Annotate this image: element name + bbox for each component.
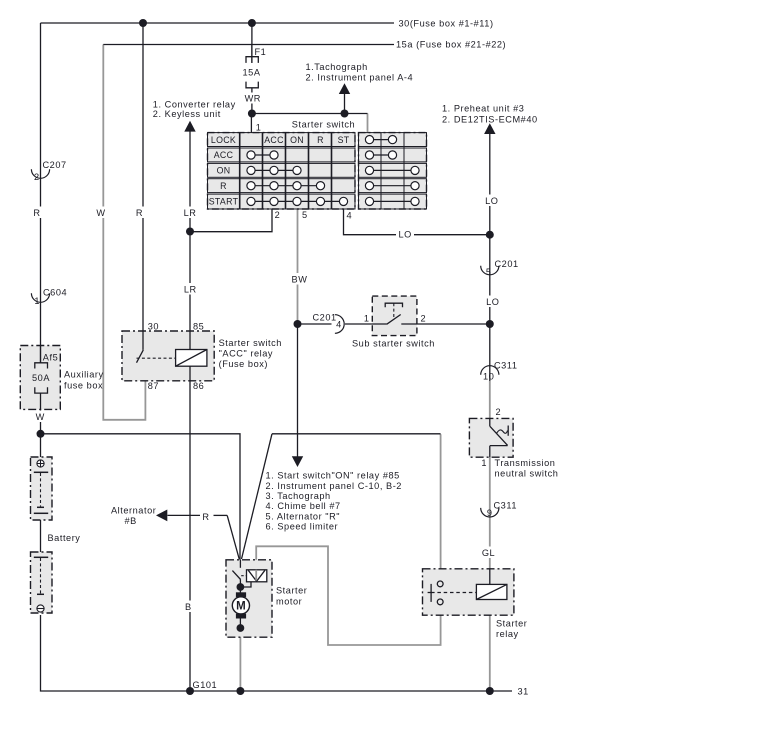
svg-text:LR: LR <box>184 208 197 218</box>
svg-text:ACC: ACC <box>214 150 234 160</box>
svg-text:85: 85 <box>193 322 204 332</box>
svg-text:W: W <box>96 208 105 218</box>
svg-text:5. Alternator "R": 5. Alternator "R" <box>266 511 341 521</box>
svg-text:4. Chime bell #7: 4. Chime bell #7 <box>266 501 341 511</box>
svg-text:30(Fuse box #1-#11): 30(Fuse box #1-#11) <box>399 18 494 28</box>
svg-text:2. Keyless unit: 2. Keyless unit <box>153 109 221 119</box>
svg-text:1. Preheat unit #3: 1. Preheat unit #3 <box>442 103 524 113</box>
svg-text:LR: LR <box>184 285 197 295</box>
svg-text:4: 4 <box>347 211 353 221</box>
svg-text:LO: LO <box>486 297 499 307</box>
svg-text:Battery: Battery <box>48 533 81 543</box>
svg-text:1: 1 <box>364 314 370 324</box>
svg-text:4: 4 <box>336 319 342 329</box>
svg-text:1. Start switch"ON" relay #85: 1. Start switch"ON" relay #85 <box>266 471 400 481</box>
svg-text:50A: 50A <box>32 373 50 383</box>
svg-text:R: R <box>202 512 209 522</box>
svg-text:2: 2 <box>421 314 427 324</box>
svg-text:relay: relay <box>496 629 519 639</box>
svg-text:ACC: ACC <box>264 135 284 145</box>
svg-text:6. Speed limiter: 6. Speed limiter <box>266 522 339 532</box>
svg-text:R: R <box>317 135 324 145</box>
svg-text:2. DE12TIS-ECM#40: 2. DE12TIS-ECM#40 <box>442 114 538 124</box>
svg-text:B: B <box>185 602 192 612</box>
svg-text:1: 1 <box>481 458 487 468</box>
svg-text:ST: ST <box>338 135 350 145</box>
svg-text:86: 86 <box>193 381 204 391</box>
svg-text:Starter: Starter <box>496 619 527 629</box>
svg-text:Alternator: Alternator <box>111 506 156 516</box>
svg-text:LO: LO <box>399 230 412 240</box>
svg-text:Sub starter switch: Sub starter switch <box>352 339 435 349</box>
svg-text:START: START <box>209 197 239 207</box>
svg-text:WR: WR <box>245 94 261 104</box>
svg-text:fuse box: fuse box <box>64 381 103 391</box>
svg-text:Auxiliary: Auxiliary <box>64 370 104 380</box>
svg-text:2. Instrument panel C-10, B-2: 2. Instrument panel C-10, B-2 <box>266 481 402 491</box>
svg-text:30: 30 <box>148 322 159 332</box>
svg-text:motor: motor <box>276 597 302 607</box>
svg-text:1: 1 <box>256 123 262 133</box>
svg-text:R: R <box>220 181 227 191</box>
svg-text:Starter: Starter <box>276 586 307 596</box>
svg-text:Af5: Af5 <box>43 353 58 363</box>
svg-text:10: 10 <box>483 372 494 382</box>
svg-text:31: 31 <box>518 687 529 697</box>
svg-text:9: 9 <box>487 508 493 518</box>
svg-text:1: 1 <box>34 296 40 306</box>
svg-text:5: 5 <box>486 267 492 277</box>
svg-text:M: M <box>236 601 246 613</box>
svg-text:2. Instrument panel A-4: 2. Instrument panel A-4 <box>306 72 414 82</box>
svg-text:Transmission: Transmission <box>495 458 556 468</box>
svg-text:2: 2 <box>34 172 40 182</box>
svg-text:15a (Fuse box #21-#22): 15a (Fuse box #21-#22) <box>396 40 506 50</box>
svg-text:R: R <box>136 208 143 218</box>
svg-text:(Fuse box): (Fuse box) <box>219 359 268 369</box>
svg-text:5: 5 <box>302 210 308 220</box>
svg-text:neutral switch: neutral switch <box>495 469 559 479</box>
svg-text:C201: C201 <box>313 313 337 323</box>
svg-text:ON: ON <box>290 135 304 145</box>
svg-text:C207: C207 <box>43 160 67 170</box>
svg-text:2: 2 <box>496 407 502 417</box>
svg-text:1.Tachograph: 1.Tachograph <box>306 62 368 72</box>
svg-text:F1: F1 <box>255 47 267 57</box>
svg-text:Starter switch: Starter switch <box>219 338 282 348</box>
svg-text:BW: BW <box>292 275 308 285</box>
svg-text:ON: ON <box>217 166 231 176</box>
svg-text:W: W <box>36 412 45 422</box>
svg-text:15A: 15A <box>243 68 261 78</box>
svg-text:2: 2 <box>275 210 281 220</box>
svg-text:R: R <box>33 208 40 218</box>
svg-text:LO: LO <box>485 196 498 206</box>
svg-text:C311: C311 <box>494 361 517 371</box>
svg-text:"ACC" relay: "ACC" relay <box>219 348 273 358</box>
svg-text:LOCK: LOCK <box>211 135 236 145</box>
svg-text:3. Tachograph: 3. Tachograph <box>266 491 331 501</box>
svg-text:C311: C311 <box>494 501 517 511</box>
svg-text:Starter switch: Starter switch <box>292 120 355 130</box>
svg-text:C201: C201 <box>495 259 519 269</box>
svg-text:GL: GL <box>482 548 495 558</box>
svg-text:87: 87 <box>148 381 159 391</box>
svg-text:C604: C604 <box>43 288 67 298</box>
svg-text:G101: G101 <box>193 680 218 690</box>
svg-text:#B: #B <box>125 516 137 526</box>
